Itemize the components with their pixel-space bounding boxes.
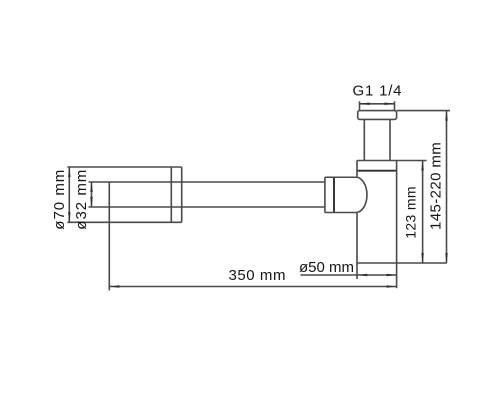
svg-text:ø50 mm: ø50 mm bbox=[299, 259, 354, 276]
decorative cup bottom edge bbox=[67, 221, 181, 223]
arrowhead oe50 left bbox=[357, 274, 367, 277]
siphon body left edge lower + oe50 extension bbox=[356, 213, 358, 280]
pipe left end / 350 extension line bbox=[108, 182, 110, 291]
145-220 top extension line bbox=[397, 110, 450, 112]
body flange top edge + 123mm extension bbox=[357, 160, 427, 162]
oe50 dimension line bbox=[301, 274, 397, 276]
svg-text:ø70 mm: ø70 mm bbox=[51, 169, 68, 230]
arrowhead G1 left bbox=[360, 103, 370, 106]
arrowhead 123 up bbox=[421, 161, 424, 171]
siphon neck left edge bbox=[363, 119, 365, 160]
siphon body left edge upper bbox=[356, 161, 358, 178]
svg-text:145-220 mm: 145-220 mm bbox=[428, 142, 445, 230]
arrowhead 350 left bbox=[109, 285, 119, 288]
body bottom edge + extension to the right bbox=[357, 262, 447, 264]
arrowhead oe50 right bbox=[387, 274, 397, 277]
svg-text:123 mm: 123 mm bbox=[403, 186, 419, 239]
horizontal pipe bottom edge bbox=[89, 206, 325, 208]
arrowhead oe32 up bbox=[90, 182, 93, 192]
arrowhead G1 right bbox=[385, 103, 395, 106]
decorative cup top edge bbox=[67, 166, 181, 168]
arrowhead 350 right bbox=[387, 285, 397, 288]
horizontal pipe top edge bbox=[89, 181, 325, 183]
decorative cup right boundary bbox=[170, 167, 172, 222]
oe32 dimension line bbox=[91, 182, 93, 207]
siphon cap (G1 1/4 nut) bbox=[358, 111, 397, 120]
elbow top edge bbox=[325, 176, 357, 178]
elbow nut left face bbox=[324, 177, 326, 212]
G1 1/4 dimension line bbox=[360, 103, 395, 105]
350 dimension line bbox=[109, 286, 396, 288]
siphon body right edge + oe50 extension bbox=[396, 161, 398, 289]
svg-text:G1 1/4: G1 1/4 bbox=[353, 83, 403, 100]
G1 1/4 right witness tick bbox=[394, 101, 396, 110]
arrowhead 145-220 up bbox=[445, 111, 448, 121]
G1 1/4 left witness tick bbox=[359, 101, 361, 110]
arrowhead oe70 up bbox=[68, 167, 71, 177]
elbow bulge arc bbox=[357, 177, 367, 212]
svg-text:350 mm: 350 mm bbox=[229, 267, 287, 284]
arrowhead oe70 down bbox=[68, 212, 71, 222]
siphon neck right edge bbox=[389, 119, 391, 160]
123 dimension line bbox=[422, 161, 424, 264]
elbow nut divider bbox=[333, 177, 335, 212]
145-220 dimension line bbox=[446, 111, 448, 263]
cup ring right face bbox=[181, 167, 183, 222]
arrowhead 123 down bbox=[421, 253, 424, 263]
arrowhead oe32 down bbox=[90, 197, 93, 207]
body flange bottom edge bbox=[357, 170, 397, 172]
oe70 dimension line / cup left face bbox=[68, 167, 70, 222]
arrowhead 145-220 down bbox=[445, 253, 448, 263]
elbow bottom edge bbox=[325, 212, 357, 214]
svg-text:ø32 mm: ø32 mm bbox=[73, 169, 90, 230]
